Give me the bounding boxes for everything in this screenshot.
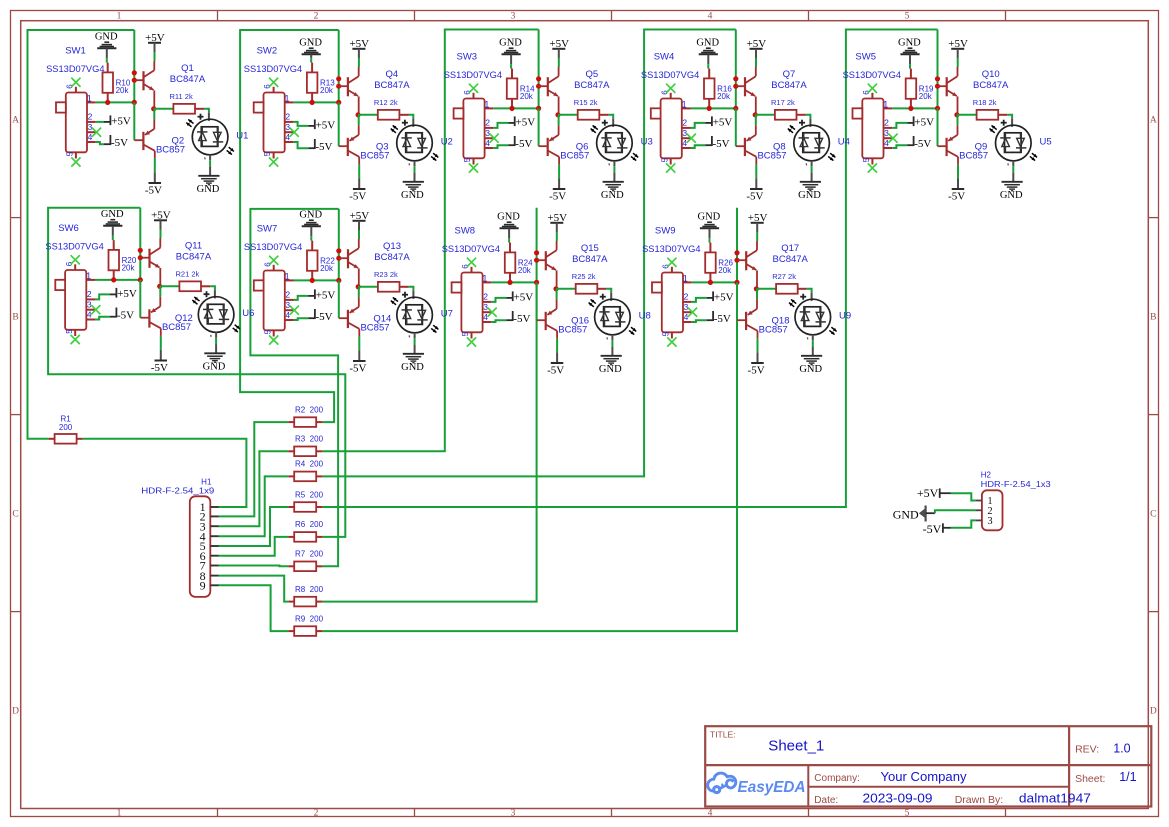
- switch pin 5 (unused): [75, 152, 77, 158]
- svg-text:GND: GND: [698, 211, 721, 222]
- svg-text:+5V: +5V: [917, 486, 939, 500]
- switch pin 4 stub: [285, 141, 294, 143]
- junction (NPN base): [734, 258, 739, 263]
- switch pin 6 (unused): [471, 267, 473, 273]
- svg-text:2: 2: [285, 112, 290, 122]
- junction (pin1 / base wire): [132, 100, 137, 105]
- wire (SW4 bus link): [735, 30, 737, 109]
- svg-text:-5V: -5V: [117, 309, 134, 321]
- wire (pin2 to +5V): [293, 122, 308, 126]
- svg-text:-5V: -5V: [547, 364, 564, 376]
- svg-text:Q10: Q10: [982, 69, 1000, 80]
- svg-text:GND: GND: [1000, 190, 1023, 201]
- switch pin 1 stub: [285, 101, 294, 103]
- transistor Q13 BC847A (NPN): [347, 249, 349, 268]
- switch pin 6 (unused): [273, 87, 275, 93]
- transistor Q12 BC857 (PNP): [159, 286, 161, 297]
- power -5V (collector Q3): [358, 178, 360, 189]
- svg-text:+5V: +5V: [111, 115, 131, 127]
- switch pin 3 (unused): [884, 137, 893, 139]
- power -5V (pin4): [309, 317, 315, 319]
- svg-text:1: 1: [682, 99, 687, 109]
- resistor R8 200: [294, 597, 316, 607]
- junction (pin1 / R24): [507, 280, 512, 285]
- H1 pin 6: [210, 555, 218, 557]
- wire GND to H2 pin2: [935, 510, 976, 513]
- svg-text:R5 200: R5 200: [295, 490, 324, 499]
- svg-text:-5V: -5V: [145, 184, 162, 196]
- power +5V (pin2): [104, 121, 110, 123]
- svg-text:GND: GND: [898, 37, 921, 48]
- power -5V (collector Q16): [556, 352, 558, 363]
- switch pin 4 stub: [884, 147, 893, 149]
- svg-text:R8 200: R8 200: [295, 585, 324, 594]
- switch pin 6 (unused): [273, 265, 275, 271]
- svg-text:C: C: [1150, 510, 1156, 520]
- wire (pin2 to +5V): [892, 123, 907, 128]
- svg-text:4: 4: [88, 132, 93, 142]
- wire (node to R11): [154, 108, 174, 110]
- wire (gnd to R19): [909, 64, 911, 69]
- svg-text:Q15: Q15: [581, 243, 599, 254]
- H1 pin 9: [210, 584, 218, 586]
- wire (base bus vertical): [538, 108, 540, 146]
- svg-text:+5V: +5V: [514, 291, 534, 303]
- svg-text:4: 4: [684, 312, 689, 322]
- svg-text:5: 5: [263, 329, 272, 334]
- svg-text:5: 5: [463, 157, 472, 162]
- wire (node to R25): [556, 288, 576, 290]
- wire (collector to -5V): [358, 164, 360, 178]
- svg-text:5: 5: [263, 151, 272, 156]
- junction (pin1 / base wire): [336, 278, 341, 283]
- svg-text:-5V: -5V: [349, 362, 366, 374]
- svg-text:9: 9: [200, 579, 206, 593]
- junction (push-pull output node): [157, 284, 162, 289]
- resistor R19 20k: [906, 78, 917, 98]
- svg-text:SS13D07VG4: SS13D07VG4: [642, 244, 700, 255]
- resistor R23 2k: [378, 282, 400, 292]
- switch pin 5 (unused): [671, 332, 673, 338]
- wire (pin4 to -5V): [294, 318, 309, 320]
- wire (base bus vertical): [133, 102, 135, 140]
- wire (SW1 bus link): [133, 30, 135, 102]
- wire R3 to header pin3: [219, 451, 289, 526]
- junction (NPN base upper): [138, 248, 143, 253]
- wire (SW7 bus link): [338, 209, 340, 281]
- wire (pin1 net row): [294, 279, 339, 281]
- junction (NPN base): [336, 84, 341, 89]
- resistor R16 20k: [704, 78, 715, 98]
- svg-text:TITLE:: TITLE:: [710, 729, 736, 739]
- wire (base bus vertical): [536, 282, 538, 320]
- svg-text:GND: GND: [893, 508, 919, 522]
- power +5V (pin2): [308, 125, 314, 127]
- switch pin 3 (unused): [86, 309, 95, 311]
- switch pin 5 (unused): [871, 158, 873, 164]
- wire (pin2 to +5V): [491, 298, 506, 302]
- wire (base bus vertical): [338, 102, 340, 146]
- svg-text:-5V: -5V: [316, 311, 333, 323]
- wire (SW3 bus link): [538, 30, 540, 109]
- wire (pin4 to -5V): [692, 320, 707, 322]
- wire net SW3 to R3: [322, 30, 538, 452]
- svg-text:20k: 20k: [116, 86, 130, 95]
- LED U4 (bidirectional): [794, 125, 830, 161]
- switch pin 2 stub: [485, 127, 494, 129]
- svg-text:1: 1: [683, 273, 688, 283]
- switch SW2 SS13D07VG4 body: [264, 93, 285, 153]
- power -5V (collector Q12): [160, 350, 162, 361]
- switch pin 5 (unused): [473, 158, 475, 164]
- transistor Q4 BC847A (NPN): [347, 77, 349, 96]
- junction (NPN base upper): [534, 250, 539, 255]
- svg-text:20k: 20k: [520, 92, 534, 101]
- junction (pin1 / base wire): [336, 100, 341, 105]
- resistor R1 200: [55, 434, 77, 444]
- junction (pin1 / R22): [310, 278, 315, 283]
- ground (under U2): [403, 181, 424, 183]
- svg-text:5: 5: [461, 331, 470, 336]
- switch pin 6 (unused): [75, 87, 77, 93]
- svg-text:1: 1: [484, 99, 489, 109]
- svg-text:R12 2k: R12 2k: [374, 98, 398, 107]
- resistor R10 20k: [103, 72, 114, 92]
- switch pin 1 stub: [884, 107, 893, 109]
- junction (pin1 / base wire): [935, 106, 940, 111]
- svg-text:4: 4: [708, 808, 713, 818]
- switch pin 4 stub: [483, 321, 492, 323]
- junction (pin1 / R16): [707, 106, 712, 111]
- wire (U2 cathode to GND): [414, 161, 416, 167]
- svg-text:GND: GND: [197, 184, 220, 195]
- svg-text:+5V: +5V: [516, 116, 536, 128]
- junction (push-pull output node): [754, 286, 759, 291]
- wire (pin4 to -5V): [493, 145, 508, 148]
- svg-text:GND: GND: [95, 31, 118, 42]
- svg-text:-5V: -5V: [349, 190, 366, 202]
- svg-text:2: 2: [884, 118, 889, 128]
- switch pin 6 (unused): [670, 93, 672, 99]
- svg-text:BC857: BC857: [162, 322, 191, 333]
- wire net SW5 to R5: [322, 30, 937, 508]
- transistor Q6 BC857 (PNP): [558, 115, 560, 126]
- svg-text:Q11: Q11: [185, 241, 202, 252]
- svg-text:20k: 20k: [320, 264, 334, 273]
- svg-text:-5V: -5V: [923, 522, 942, 536]
- svg-text:1: 1: [284, 93, 289, 103]
- junction (pin1 / base wire): [733, 106, 738, 111]
- svg-text:3: 3: [285, 300, 290, 310]
- power -5V (collector Q18): [757, 352, 759, 363]
- wire (+5V to collector): [558, 58, 560, 67]
- plus mark (U2 anode): [402, 122, 408, 124]
- junction (push-pull output node): [954, 112, 959, 117]
- wire (gnd to R22): [310, 236, 312, 241]
- svg-text:GND: GND: [599, 364, 622, 375]
- svg-text:U1: U1: [236, 130, 248, 141]
- svg-text:R2 200: R2 200: [295, 405, 324, 414]
- power +5V (pin2): [506, 297, 512, 299]
- wire (pin1 net row): [892, 107, 937, 109]
- svg-text:SW2: SW2: [257, 46, 278, 57]
- plus mark (U4 anode): [799, 122, 805, 124]
- wire (collector to -5V): [154, 158, 156, 172]
- svg-text:-5V: -5V: [513, 313, 530, 325]
- svg-text:4: 4: [682, 138, 687, 148]
- switch pin 1 stub: [87, 101, 96, 103]
- junction (NPN base upper): [733, 76, 738, 81]
- switch pin 3 (unused): [285, 309, 294, 311]
- plus mark (U7 anode): [402, 294, 408, 296]
- resistor R2 200: [294, 417, 316, 427]
- svg-text:3: 3: [682, 128, 687, 138]
- svg-text:4: 4: [285, 132, 290, 142]
- svg-text:SW9: SW9: [655, 226, 676, 237]
- circuit block SW5: [843, 37, 1052, 202]
- resistor R9 200: [294, 626, 316, 636]
- wire (pin4 to -5V): [892, 145, 907, 148]
- wire (U1 cathode to GND): [209, 155, 211, 161]
- junction (NPN base upper): [536, 76, 541, 81]
- wire (SW2 bus link): [338, 30, 340, 102]
- svg-text:+5V: +5V: [714, 291, 734, 303]
- svg-text:1: 1: [117, 808, 122, 818]
- switch pin 6 (unused): [74, 264, 76, 270]
- switch SW6 SS13D07VG4 body: [65, 270, 86, 330]
- junction (NPN base): [138, 255, 143, 260]
- wire net SW4 to R4: [322, 30, 735, 477]
- svg-text:SW3: SW3: [457, 52, 478, 63]
- switch pin 2 stub: [884, 127, 893, 129]
- wire (pin1 net row): [95, 279, 140, 281]
- power -5V (pin4): [308, 147, 314, 149]
- wire (+5V to collector): [957, 58, 959, 67]
- svg-text:+5V: +5V: [316, 119, 336, 131]
- resistor R27 2k: [776, 284, 798, 294]
- svg-text:R15 2k: R15 2k: [574, 98, 598, 107]
- wire (node to R15): [558, 114, 578, 116]
- wire (base bus vertical): [937, 108, 939, 146]
- wire (pin2 to +5V): [96, 121, 104, 123]
- wire net SW7 to R7: [250, 209, 338, 566]
- wire (R15 to U3): [608, 115, 613, 119]
- switch pin 2 stub: [483, 301, 492, 303]
- svg-text:2: 2: [684, 292, 689, 302]
- svg-text:1.0: 1.0: [1113, 741, 1130, 755]
- LED U8 (bidirectional): [595, 299, 631, 335]
- resistor R11 2k: [173, 104, 195, 114]
- svg-text:BC857: BC857: [560, 151, 589, 162]
- svg-text:GND: GND: [203, 362, 226, 373]
- svg-text:2: 2: [682, 118, 687, 128]
- svg-text:Drawn By:: Drawn By:: [955, 794, 1003, 806]
- wire (+5V to collector): [160, 230, 162, 239]
- svg-text:5: 5: [660, 157, 669, 162]
- junction (NPN base): [536, 84, 541, 89]
- wire (pin1 net row): [691, 107, 736, 109]
- resistor R26 20k: [705, 252, 716, 272]
- svg-text:-5V: -5V: [748, 364, 765, 376]
- LED U2 (bidirectional): [397, 125, 433, 161]
- H1 pin 4: [210, 535, 218, 537]
- switch pin 4 stub: [285, 319, 294, 321]
- plus mark (U3 anode): [602, 122, 608, 124]
- svg-text:SS13D07VG4: SS13D07VG4: [444, 70, 502, 81]
- svg-text:SS13D07VG4: SS13D07VG4: [442, 244, 500, 255]
- resistor R22 20k: [307, 250, 318, 270]
- transistor Q14 BC857 (PNP): [358, 287, 360, 298]
- junction (NPN base): [935, 84, 940, 89]
- junction (pin1 / R20): [111, 277, 116, 282]
- resistor R17 2k: [775, 110, 797, 120]
- svg-text:-5V: -5V: [714, 313, 731, 325]
- circuit block SW6: [45, 209, 254, 374]
- wire (R18 to U5): [1007, 115, 1012, 119]
- H1 pin 8: [210, 575, 218, 577]
- switch pin 3 (unused): [485, 137, 494, 139]
- power -5V (collector Q9): [957, 178, 959, 189]
- wire (collector to -5V): [757, 338, 759, 352]
- switch pin 3 (unused): [87, 131, 96, 133]
- svg-text:20k: 20k: [919, 92, 933, 101]
- svg-text:A: A: [1150, 116, 1157, 126]
- junction (NPN base upper): [132, 70, 137, 75]
- svg-text:GND: GND: [299, 37, 322, 48]
- wire (+5V to collector): [755, 58, 757, 67]
- wire (pin2 to +5V): [692, 298, 707, 302]
- svg-text:Q7: Q7: [783, 69, 796, 80]
- transistor Q7 BC847A (NPN): [744, 77, 746, 96]
- switch SW4 SS13D07VG4 body: [661, 99, 682, 159]
- H1 pin 1: [210, 506, 218, 508]
- circuit block SW4: [641, 37, 850, 202]
- svg-text:2: 2: [485, 118, 490, 128]
- svg-text:dalmat1947: dalmat1947: [1019, 791, 1091, 805]
- switch pin 4 stub: [682, 147, 691, 149]
- wire (gnd to R13): [310, 58, 312, 63]
- svg-text:2: 2: [314, 808, 319, 818]
- svg-text:200: 200: [59, 423, 73, 432]
- transistor Q16 BC857 (PNP): [556, 289, 558, 300]
- junction (push-pull output node): [356, 284, 361, 289]
- svg-text:R25 2k: R25 2k: [572, 272, 596, 281]
- LED U9 (bidirectional): [795, 299, 831, 335]
- svg-text:A: A: [12, 116, 19, 126]
- svg-text:4: 4: [87, 309, 92, 319]
- svg-text:3: 3: [884, 128, 889, 138]
- switch SW9 SS13D07VG4 body: [662, 273, 683, 333]
- wire (pin1 net row): [491, 281, 536, 283]
- svg-text:BC847A: BC847A: [374, 80, 410, 91]
- svg-text:B: B: [12, 313, 18, 323]
- transistor Q10 BC847A (NPN): [946, 77, 948, 96]
- junction (pin1 / base wire): [138, 277, 143, 282]
- LED U1 (bidirectional): [192, 119, 228, 155]
- switch pin 5 (unused): [670, 158, 672, 164]
- resistor R6 200: [294, 532, 316, 542]
- wire (pin2 to +5V): [691, 123, 706, 128]
- svg-text:Company:: Company:: [814, 773, 860, 784]
- svg-text:-5V: -5V: [948, 190, 965, 202]
- wire (gnd to R10): [106, 58, 108, 63]
- LED U5 (bidirectional): [996, 125, 1032, 161]
- svg-text:SW8: SW8: [455, 226, 476, 237]
- wire (U6 cathode to GND): [215, 332, 217, 338]
- wire (base bus vertical): [338, 280, 340, 318]
- LED U7 (bidirectional): [397, 297, 433, 333]
- svg-text:H2: H2: [981, 471, 992, 480]
- wire (U7 cathode to GND): [414, 333, 416, 339]
- wire R9 to header pin9: [219, 585, 289, 631]
- switch SW7 SS13D07VG4 body: [264, 271, 285, 331]
- circuit block SW9: [642, 211, 851, 376]
- svg-text:R17 2k: R17 2k: [771, 98, 795, 107]
- ground (under U9): [801, 355, 822, 357]
- switch pin 6 (unused): [671, 267, 673, 273]
- switch pin 2 stub: [86, 298, 95, 300]
- resistor R18 2k: [977, 110, 999, 120]
- svg-text:R4 200: R4 200: [295, 460, 324, 469]
- circuit block SW3: [444, 37, 653, 202]
- svg-text:Q5: Q5: [585, 69, 598, 80]
- junction (NPN base upper): [935, 76, 940, 81]
- transistor Q15 BC847A (NPN): [545, 251, 547, 270]
- svg-text:BC857: BC857: [156, 145, 185, 156]
- wire R8 to header pin8: [219, 576, 289, 602]
- wire (R21 to U6): [210, 286, 215, 290]
- H2 pin 3: [976, 519, 982, 521]
- svg-text:BC857: BC857: [959, 151, 988, 162]
- wire (pin4 to -5V): [96, 142, 104, 144]
- ground (under U8): [601, 355, 622, 357]
- switch pin 2 stub: [87, 121, 96, 123]
- power -5V (collector Q14): [358, 350, 360, 361]
- svg-text:SS13D07VG4: SS13D07VG4: [244, 64, 302, 75]
- svg-text:SS13D07VG4: SS13D07VG4: [46, 64, 104, 75]
- svg-text:3: 3: [87, 300, 92, 310]
- svg-text:R7 200: R7 200: [295, 550, 324, 559]
- title block frame: [705, 726, 1151, 806]
- svg-text:20k: 20k: [718, 266, 732, 275]
- svg-text:REV:: REV:: [1075, 744, 1099, 756]
- power -5V (pin4): [110, 316, 116, 318]
- ground (under U4): [800, 181, 821, 183]
- svg-text:BC847A: BC847A: [973, 80, 1009, 91]
- svg-text:+5V: +5V: [914, 116, 934, 128]
- svg-text:EasyEDA: EasyEDA: [738, 779, 806, 796]
- svg-text:U4: U4: [838, 136, 850, 147]
- svg-text:GND: GND: [799, 364, 822, 375]
- svg-text:BC857: BC857: [360, 323, 389, 334]
- svg-text:1: 1: [117, 11, 122, 21]
- svg-text:BC847A: BC847A: [574, 80, 610, 91]
- circuit block SW1: [46, 31, 248, 196]
- power +5V (pin2): [309, 295, 315, 297]
- wire (pin2 to +5V): [95, 294, 110, 299]
- switch pin 5 (unused): [273, 152, 275, 158]
- svg-text:R18 2k: R18 2k: [973, 98, 997, 107]
- svg-text:-5V: -5V: [914, 138, 931, 150]
- switch pin 3 (unused): [683, 311, 692, 313]
- svg-text:1: 1: [87, 93, 92, 103]
- junction (push-pull output node): [555, 112, 560, 117]
- svg-text:Q4: Q4: [386, 69, 399, 80]
- svg-text:BC847A: BC847A: [374, 252, 410, 263]
- svg-text:1/1: 1/1: [1119, 770, 1136, 784]
- svg-text:3: 3: [285, 122, 290, 132]
- switch pin 1 stub: [86, 279, 95, 281]
